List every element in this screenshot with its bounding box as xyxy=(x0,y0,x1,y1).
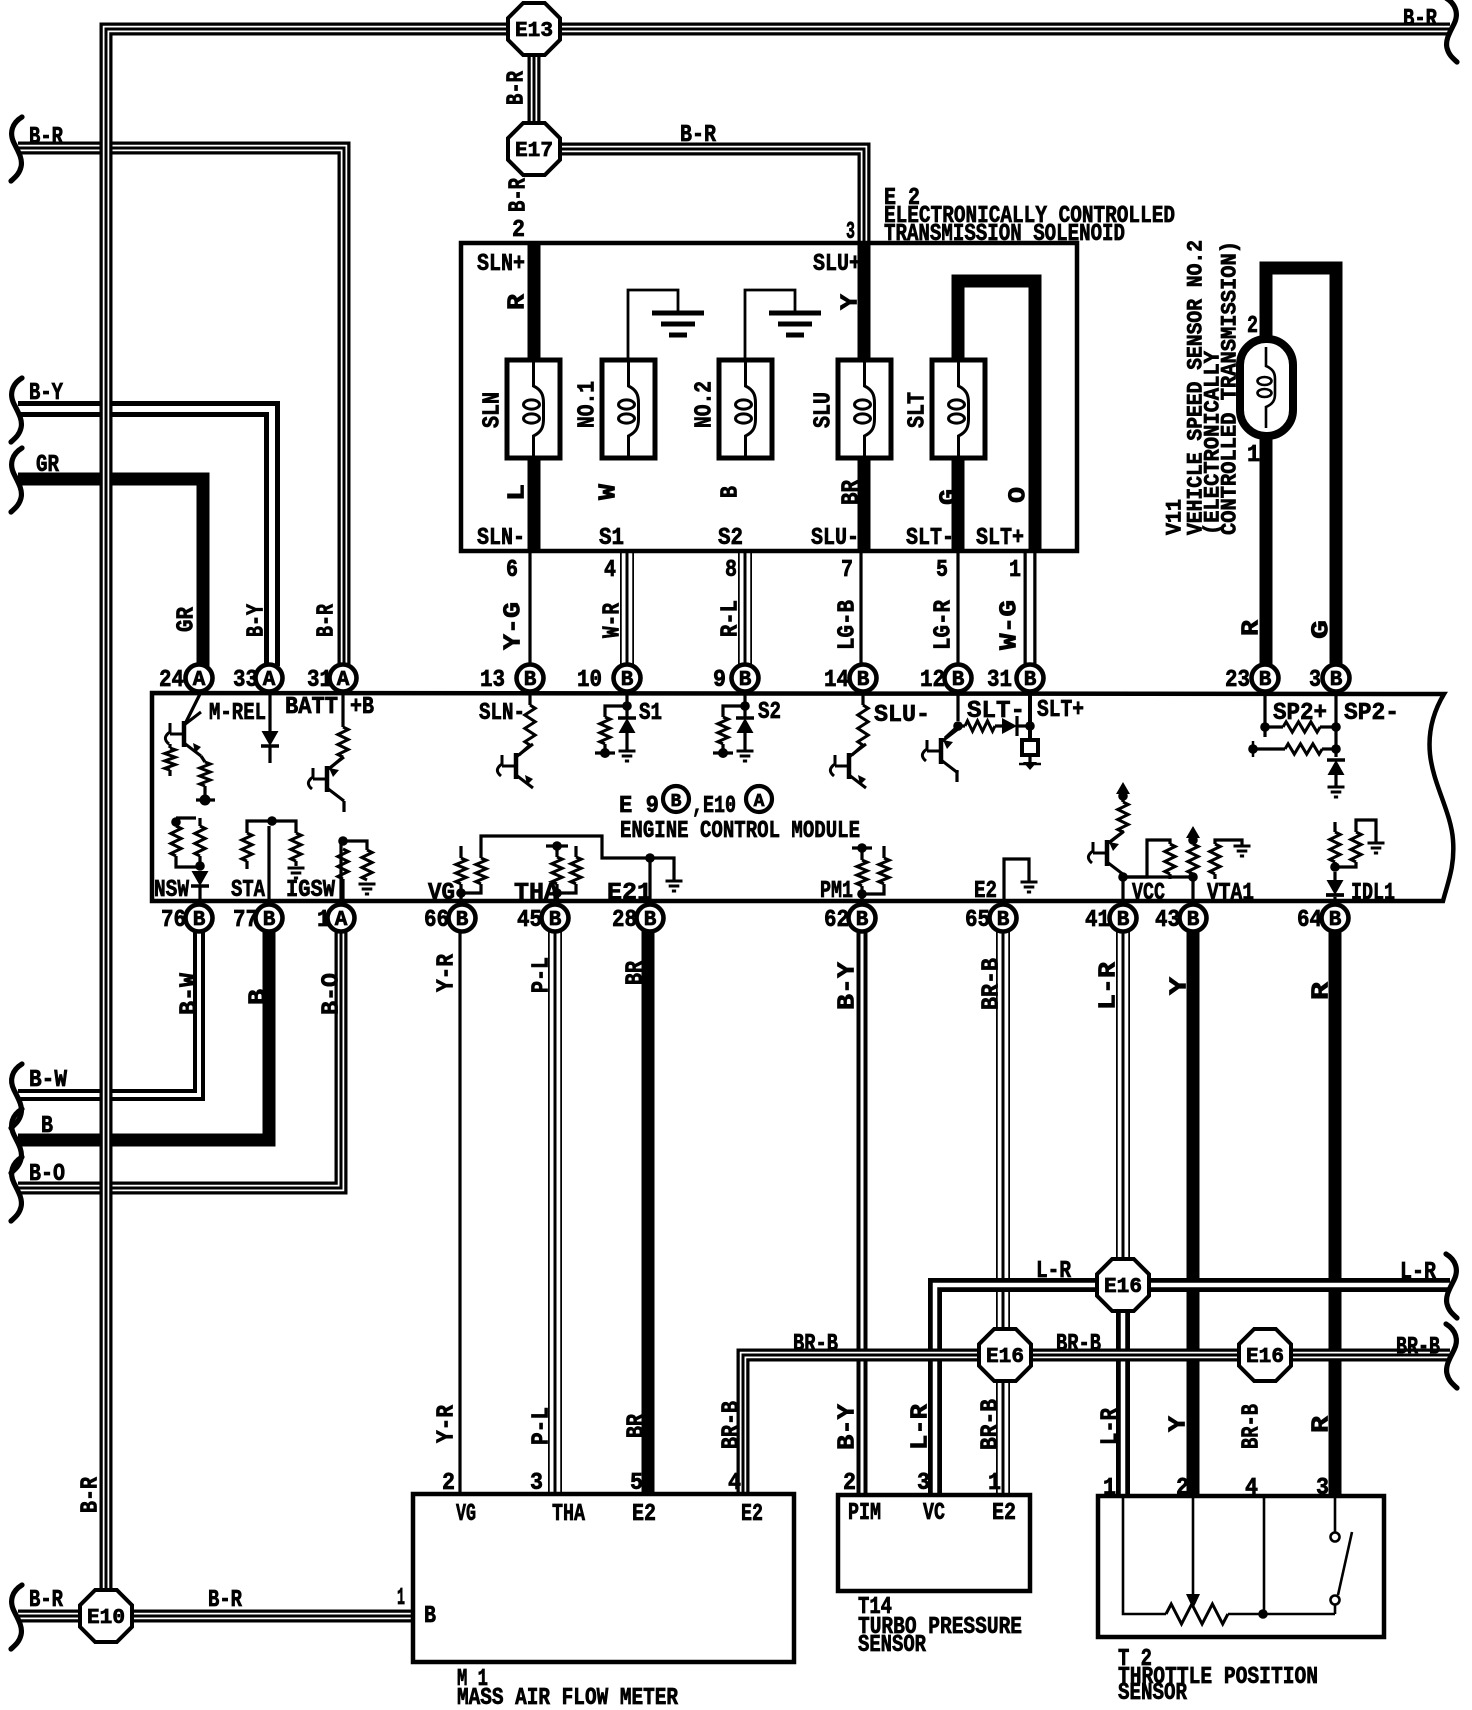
wire xyxy=(555,846,558,857)
svg-text:NSW: NSW xyxy=(154,877,189,904)
solenoid coil SLT xyxy=(932,360,985,458)
svg-text:4: 4 xyxy=(728,1470,741,1497)
junction dot xyxy=(1331,744,1341,754)
svg-text:SLT: SLT xyxy=(905,392,932,428)
wire xyxy=(625,706,628,718)
wire xyxy=(1333,862,1336,867)
svg-text:B-R: B-R xyxy=(506,178,533,212)
svg-text:E17: E17 xyxy=(515,140,553,163)
wire xyxy=(1191,877,1194,905)
svg-text:THA: THA xyxy=(514,880,560,907)
ECM pin 33 A (BATT) xyxy=(256,665,283,692)
svg-text:R: R xyxy=(1309,981,1336,1000)
throttle position sensor T2 box xyxy=(1098,1496,1384,1637)
svg-text:B: B xyxy=(997,909,1010,932)
svg-text:Y: Y xyxy=(1166,1415,1193,1432)
ECM pin 64 B (IDL1) xyxy=(1322,905,1349,932)
svg-text:BR-B: BR-B xyxy=(1239,1404,1266,1449)
wire B-R from E17 to solenoid pin 3 SLU+ xyxy=(534,149,864,245)
junction dot xyxy=(195,861,205,871)
resistor xyxy=(1330,832,1340,862)
wire xyxy=(1320,725,1336,728)
ECM pin 77 B (STA) xyxy=(256,905,283,932)
transmission solenoid E2 box xyxy=(461,243,1077,551)
wire xyxy=(743,733,746,750)
svg-text:P-L: P-L xyxy=(529,957,556,993)
svg-text:5: 5 xyxy=(936,557,948,584)
resistor xyxy=(1283,722,1320,732)
connector E16 (BR-B junction left) xyxy=(979,1329,1031,1381)
svg-text:31: 31 xyxy=(307,667,332,694)
wire Y solenoid pin3 to SLU coil xyxy=(858,243,871,366)
resistor xyxy=(171,826,181,856)
svg-text:BR-B: BR-B xyxy=(1056,1331,1101,1358)
svg-text:W-G: W-G xyxy=(997,600,1024,650)
wire xyxy=(1110,832,1123,842)
resistor xyxy=(879,858,889,884)
svg-text:A: A xyxy=(193,669,206,692)
resistor xyxy=(857,860,867,886)
svg-text:4: 4 xyxy=(604,557,616,584)
wire xyxy=(1263,692,1266,737)
svg-text:B-R: B-R xyxy=(29,1587,63,1614)
svg-text:41: 41 xyxy=(1085,907,1110,934)
wire xyxy=(955,770,958,782)
ECM pin 23 B (SP2+) xyxy=(1252,665,1279,692)
diode xyxy=(1327,880,1344,895)
svg-text:E16: E16 xyxy=(986,1346,1024,1369)
svg-text:BR-B: BR-B xyxy=(793,1331,838,1358)
svg-text:2: 2 xyxy=(1176,1475,1189,1502)
resistor xyxy=(291,833,301,861)
wire xyxy=(267,826,270,905)
svg-text:9: 9 xyxy=(713,667,726,694)
junction dot xyxy=(1330,862,1340,872)
svg-text:B-Y: B-Y xyxy=(835,961,862,1010)
junction dot xyxy=(857,889,867,899)
svg-text:MASS AIR FLOW METER: MASS AIR FLOW METER xyxy=(457,1685,678,1710)
diode xyxy=(262,731,279,746)
ECM pin 3 B (SP2-) xyxy=(1323,665,1350,692)
wire xyxy=(459,846,462,858)
svg-text:B: B xyxy=(1329,909,1342,932)
svg-text:BR: BR xyxy=(623,961,650,985)
svg-text:Y-R: Y-R xyxy=(434,953,461,992)
diode xyxy=(1327,758,1345,762)
wire xyxy=(628,290,678,360)
resistor xyxy=(1351,832,1361,862)
connector E10 xyxy=(80,1590,132,1642)
svg-text:STA: STA xyxy=(231,877,265,904)
svg-text:33: 33 xyxy=(233,667,258,694)
diode xyxy=(736,716,754,720)
ground xyxy=(666,880,683,883)
wire xyxy=(1123,1498,1166,1614)
svg-text:66: 66 xyxy=(424,907,449,934)
ECM pin 45 B (THA) xyxy=(542,905,569,932)
wire xyxy=(1334,1498,1337,1532)
svg-text:B-R: B-R xyxy=(208,1587,242,1614)
transistor xyxy=(182,721,187,747)
wire xyxy=(196,798,215,801)
svg-text:E21: E21 xyxy=(607,880,652,907)
ECM pin 24 A (M-REL) xyxy=(186,665,213,692)
svg-text:L-R: L-R xyxy=(1098,1407,1125,1445)
wire xyxy=(555,884,576,905)
svg-text:64: 64 xyxy=(1297,907,1322,934)
svg-text:IDL1: IDL1 xyxy=(1351,880,1395,907)
svg-text:L-R: L-R xyxy=(908,1403,935,1450)
svg-text:28: 28 xyxy=(612,907,637,934)
svg-text:G: G xyxy=(937,489,964,505)
transistor xyxy=(939,738,944,764)
svg-text:3: 3 xyxy=(917,1470,930,1497)
svg-text:43: 43 xyxy=(1155,907,1180,934)
svg-text:GR: GR xyxy=(36,452,59,479)
transistor xyxy=(1105,840,1110,866)
svg-text:1: 1 xyxy=(1009,557,1021,584)
svg-text:SLU+: SLU+ xyxy=(813,251,861,278)
wire xyxy=(882,846,885,858)
svg-text:R: R xyxy=(1309,1415,1336,1433)
wire xyxy=(650,858,674,905)
ground xyxy=(1368,842,1385,845)
junction dot xyxy=(1331,722,1341,732)
svg-text:2: 2 xyxy=(512,217,525,244)
svg-text:B: B xyxy=(739,669,752,692)
wire xyxy=(860,848,863,860)
resistor xyxy=(195,826,205,856)
ground xyxy=(1021,881,1038,884)
svg-text:B: B xyxy=(718,486,745,498)
svg-text:BR: BR xyxy=(624,1414,651,1438)
wire xyxy=(1028,755,1031,762)
junction dot xyxy=(953,721,963,731)
wire xyxy=(605,706,627,717)
wire xyxy=(713,751,733,754)
svg-text:PM1: PM1 xyxy=(820,878,853,905)
svg-text:B: B xyxy=(524,669,537,692)
svg-text:S1: S1 xyxy=(639,700,662,727)
svg-text:B: B xyxy=(671,792,682,812)
wire R speed sensor pin1 to ECM pin 23B xyxy=(1260,435,1273,666)
ECM pin 1 A (IGSW) xyxy=(328,905,355,932)
break right top B-R xyxy=(1446,0,1457,62)
connector E13 xyxy=(508,3,560,55)
svg-text:5: 5 xyxy=(630,1470,643,1497)
transistor xyxy=(325,766,330,792)
junction dot xyxy=(1258,1609,1268,1619)
wire B-R from left break to ECM pin 31A xyxy=(18,148,344,666)
svg-text:M-REL: M-REL xyxy=(209,700,266,727)
svg-text:B-O: B-O xyxy=(319,973,346,1015)
wire xyxy=(1334,692,1337,757)
wire xyxy=(956,692,959,721)
svg-text:2: 2 xyxy=(843,1470,856,1497)
junction dot xyxy=(1188,835,1198,845)
svg-text:23: 23 xyxy=(1225,667,1250,694)
ECM pin 66 B (VG) xyxy=(449,905,476,932)
svg-text:B: B xyxy=(41,1113,53,1140)
wire xyxy=(1019,763,1041,766)
wire xyxy=(1121,796,1124,802)
svg-text:SLT-: SLT- xyxy=(906,525,954,552)
ground xyxy=(359,883,376,886)
svg-text:B: B xyxy=(856,909,869,932)
solenoid coil NO.1 xyxy=(602,360,655,458)
svg-text:1: 1 xyxy=(397,1585,405,1612)
junction dot xyxy=(171,817,181,827)
wire xyxy=(574,846,577,857)
wire Y ECM pin 43B to TPS pin 2 xyxy=(1187,930,1200,1496)
junction dot xyxy=(740,701,750,711)
svg-text:B-Y: B-Y xyxy=(29,380,63,407)
junction dot xyxy=(200,795,211,806)
break left B xyxy=(11,1109,22,1173)
svg-text:Y-R: Y-R xyxy=(434,1404,461,1443)
wire xyxy=(1333,872,1336,880)
svg-text:L-R: L-R xyxy=(1096,961,1123,1010)
wire GR from left break to ECM pin 24A xyxy=(18,479,203,666)
wire xyxy=(1334,775,1337,786)
svg-text:SLU-: SLU- xyxy=(811,525,859,552)
svg-text:B: B xyxy=(1259,669,1272,692)
svg-text:PIM: PIM xyxy=(848,1500,881,1527)
break left B-O xyxy=(11,1157,22,1221)
svg-text:R-L: R-L xyxy=(718,600,745,637)
ECM pin 31 A (+B) xyxy=(330,665,357,692)
svg-text:10: 10 xyxy=(577,667,602,694)
svg-text:G: G xyxy=(1309,620,1336,639)
svg-text:S1: S1 xyxy=(599,525,624,552)
wire xyxy=(546,844,568,847)
wire xyxy=(330,757,343,768)
wire xyxy=(743,706,746,718)
svg-text:2: 2 xyxy=(442,1470,455,1497)
svg-text:B-W: B-W xyxy=(177,972,204,1015)
connector E16 (L-R junction) xyxy=(1097,1259,1149,1311)
svg-text:E10: E10 xyxy=(87,1607,125,1630)
svg-text:13: 13 xyxy=(480,667,505,694)
svg-text:B: B xyxy=(1330,669,1343,692)
svg-text:SLU: SLU xyxy=(811,392,838,428)
svg-text:SLT+: SLT+ xyxy=(1037,697,1084,724)
ground xyxy=(737,750,754,753)
svg-text:S2: S2 xyxy=(758,699,781,726)
svg-text:SLN-: SLN- xyxy=(479,700,525,727)
ECM pin 12 B (SLT-) xyxy=(945,665,972,692)
wire xyxy=(1215,840,1242,846)
resistor xyxy=(718,717,728,744)
svg-text:,E10: ,E10 xyxy=(692,793,736,820)
svg-text:E 9: E 9 xyxy=(619,793,659,820)
svg-text:SLN+: SLN+ xyxy=(477,251,525,278)
svg-text:BR-B: BR-B xyxy=(978,1399,1005,1450)
svg-text:B: B xyxy=(1117,909,1130,932)
wire xyxy=(519,745,530,755)
wire xyxy=(745,290,795,360)
wire B-O from ECM pin 1A to left break xyxy=(18,930,341,1188)
resistor xyxy=(858,705,868,745)
wire xyxy=(1123,840,1170,877)
svg-text:TRANSMISSION SOLENOID: TRANSMISSION SOLENOID xyxy=(884,221,1125,248)
break right BR-B xyxy=(1446,1324,1457,1388)
wire xyxy=(341,692,344,727)
svg-text:SP2+: SP2+ xyxy=(1273,700,1327,727)
wire R ECM pin 64B to TPS pin 3 xyxy=(1329,930,1342,1496)
wire xyxy=(852,745,863,755)
svg-text:31: 31 xyxy=(987,667,1012,694)
svg-text:Y: Y xyxy=(838,293,865,310)
ECM pin 9 B (S2) xyxy=(732,665,759,692)
ground xyxy=(288,867,305,870)
break right L-R xyxy=(1446,1254,1457,1318)
svg-text:L: L xyxy=(505,484,532,501)
wire xyxy=(459,884,462,893)
resistor xyxy=(1285,744,1322,754)
svg-text:SLT-: SLT- xyxy=(967,698,1025,725)
ECM pin 28 B (E21) xyxy=(637,905,664,932)
junction dot xyxy=(456,888,466,898)
wire xyxy=(268,746,271,763)
svg-text:SLT+: SLT+ xyxy=(976,525,1024,552)
svg-text:Y: Y xyxy=(1167,976,1194,995)
junction dot xyxy=(1248,744,1258,754)
ground xyxy=(619,750,636,753)
wire xyxy=(1333,822,1336,832)
ECM pin 76 B (NSW) xyxy=(186,905,213,932)
ECM pin 14 B (SLU-) xyxy=(850,665,877,692)
junction dot xyxy=(1118,791,1128,801)
wire L-R connector E16 to TPS pin 1 xyxy=(1116,1285,1130,1496)
wire B-R through connector E10 to MAF pin 1 xyxy=(18,1610,413,1623)
svg-text:E16: E16 xyxy=(1104,1276,1142,1299)
svg-text:O: O xyxy=(1006,487,1033,503)
svg-text:B: B xyxy=(621,669,634,692)
wire xyxy=(860,894,863,905)
break left bottom B-R xyxy=(11,1585,22,1649)
svg-text:8: 8 xyxy=(725,557,737,584)
wire xyxy=(186,692,201,722)
wire xyxy=(198,856,201,862)
wire Y-G solenoid pin 6 to ECM pin 13B xyxy=(528,553,531,666)
wire xyxy=(176,856,199,867)
wire xyxy=(201,756,205,762)
svg-text:S2: S2 xyxy=(718,525,743,552)
svg-text:4: 4 xyxy=(1245,1475,1258,1502)
ECM pin 43 B (VTA1) xyxy=(1180,905,1207,932)
wire P-L ECM pin 45B to MAF THA pin 3 xyxy=(548,930,562,1494)
wire xyxy=(342,801,345,812)
ECM pin 31 B (SLT+) xyxy=(1017,665,1044,692)
svg-text:E13: E13 xyxy=(515,20,553,43)
svg-text:SLN-: SLN- xyxy=(477,525,525,552)
svg-text:LG-R: LG-R xyxy=(931,599,958,650)
svg-text:THA: THA xyxy=(552,1501,585,1528)
wire xyxy=(1121,874,1124,905)
svg-text:P-L: P-L xyxy=(529,1407,556,1445)
resistor xyxy=(362,850,372,880)
svg-text:14: 14 xyxy=(824,667,849,694)
wire W-G solenoid pin 1 to ECM pin 31B xyxy=(1024,553,1037,666)
solenoid coil NO.2 xyxy=(719,360,772,458)
wire xyxy=(945,726,958,738)
svg-text:B-Y: B-Y xyxy=(835,1403,862,1450)
svg-text:3: 3 xyxy=(530,1470,543,1497)
wire B-Y from left break to ECM pin 33A xyxy=(18,409,272,666)
wire xyxy=(852,846,872,849)
wire xyxy=(198,818,201,826)
svg-text:R: R xyxy=(505,293,532,310)
svg-text:Y-G: Y-G xyxy=(501,602,528,650)
wire L-R ECM pin 41B to connector E16 xyxy=(1116,930,1130,1285)
svg-text:R: R xyxy=(1239,619,1266,636)
wire xyxy=(1263,1498,1266,1614)
svg-text:B: B xyxy=(424,1603,436,1630)
svg-text:A: A xyxy=(335,909,348,932)
resistor xyxy=(1165,844,1175,874)
wire O SLT coil loop to solenoid pin 1 SLT+ xyxy=(958,281,1035,553)
solenoid coil SLN xyxy=(507,360,560,458)
wire xyxy=(528,692,531,705)
ECM pin 62 B (PM1) xyxy=(849,905,876,932)
svg-text:B: B xyxy=(1024,669,1037,692)
engine control module E9/E10 box xyxy=(152,693,1453,901)
wire LG-R solenoid pin 5 to ECM pin 12B xyxy=(956,553,959,666)
wire xyxy=(595,751,615,754)
svg-text:SENSOR: SENSOR xyxy=(858,1632,926,1659)
ECM pin 10 B (S1) xyxy=(614,665,641,692)
svg-text:76: 76 xyxy=(161,907,186,934)
svg-text:VG: VG xyxy=(428,880,455,907)
svg-text:E16: E16 xyxy=(1246,1346,1284,1369)
svg-text:B-R: B-R xyxy=(1403,6,1437,33)
svg-text:B: B xyxy=(263,909,276,932)
resistor xyxy=(476,858,486,884)
wire xyxy=(1334,1605,1337,1614)
ECM pin 13 B (SLN-) xyxy=(517,665,544,692)
svg-text:12: 12 xyxy=(920,667,945,694)
wire xyxy=(176,816,196,819)
wire xyxy=(294,861,297,866)
break left GR xyxy=(11,448,22,512)
svg-text:SP2-: SP2- xyxy=(1344,700,1399,727)
ground xyxy=(1234,845,1251,848)
svg-text:B-O: B-O xyxy=(29,1161,65,1188)
transistor xyxy=(847,753,852,779)
wire xyxy=(247,821,272,833)
wire xyxy=(625,692,628,706)
svg-text:62: 62 xyxy=(824,907,849,934)
wire BR SLU coil to solenoid pin 7 xyxy=(858,452,871,553)
wire xyxy=(555,884,558,893)
junction dot xyxy=(645,853,655,863)
wire xyxy=(481,836,650,858)
svg-text:E2: E2 xyxy=(974,878,997,905)
resistor xyxy=(456,858,466,884)
wire LG-B solenoid pin 7 to ECM pin 14B xyxy=(859,553,862,666)
svg-text:L-R: L-R xyxy=(1400,1259,1436,1286)
junction dot xyxy=(857,843,867,853)
svg-text:1: 1 xyxy=(317,907,330,934)
wire xyxy=(862,884,884,894)
junction dot xyxy=(267,816,277,826)
svg-text:1: 1 xyxy=(1103,1475,1116,1502)
wire BR-B run: MAF pin4 corner through E16 connectors to right break xyxy=(743,1355,1450,1494)
ground xyxy=(1328,786,1345,789)
wire xyxy=(341,879,344,905)
break left B-R xyxy=(11,117,22,181)
